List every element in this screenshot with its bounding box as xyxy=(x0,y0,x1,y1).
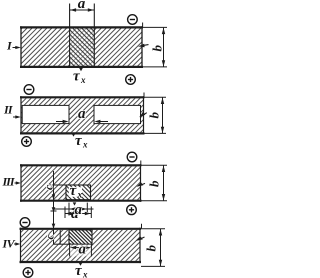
svg-text:x: x xyxy=(82,270,88,278)
svg-text:c: c xyxy=(43,234,57,240)
svg-text:IV: IV xyxy=(2,237,16,251)
svg-text:a: a xyxy=(78,0,86,12)
svg-text:x: x xyxy=(80,75,86,85)
svg-text:c: c xyxy=(42,184,56,190)
svg-text:x: x xyxy=(82,140,88,150)
svg-text:b: b xyxy=(147,112,162,119)
svg-text:a: a xyxy=(75,202,83,218)
svg-text:a: a xyxy=(78,106,86,122)
svg-text:b: b xyxy=(144,245,159,252)
svg-text:b: b xyxy=(150,45,165,52)
svg-text:a: a xyxy=(79,242,87,258)
svg-text:x: x xyxy=(77,191,83,201)
svg-text:b: b xyxy=(147,180,162,187)
